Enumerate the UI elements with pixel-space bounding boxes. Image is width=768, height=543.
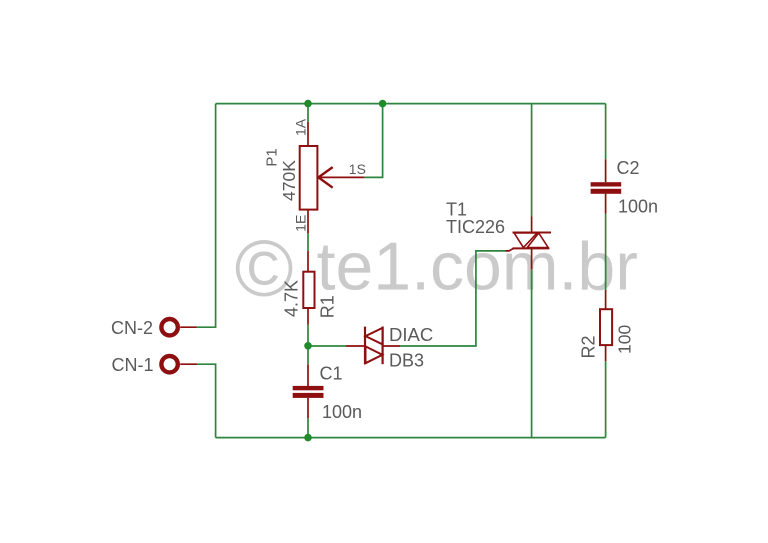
watermark te1.com.br — [317, 229, 638, 305]
svg-text:TIC226: TIC226 — [446, 217, 505, 237]
svg-text:100n: 100n — [618, 197, 658, 217]
svg-text:1A: 1A — [293, 118, 309, 136]
pin R1 bottom — [307, 308, 309, 325]
svg-text:DB3: DB3 — [389, 351, 424, 371]
pin CN-2 stub — [180, 326, 196, 328]
wire CN-1 to bottom rail — [197, 364, 216, 437]
svg-text:te1.com.br: te1.com.br — [317, 229, 638, 305]
watermark copyright symbol — [235, 224, 294, 313]
svg-text:R2: R2 — [579, 335, 599, 358]
diac DIAC lower triangle — [366, 346, 383, 363]
pin triac gate — [506, 248, 514, 251]
diac DIAC upper triangle — [366, 328, 383, 345]
wire top rail to triac MT2 — [531, 104, 533, 217]
wire R2 to bottom rail — [605, 361, 607, 437]
wire P1 1E to R1 — [307, 233, 309, 251]
svg-text:DIAC: DIAC — [389, 324, 433, 345]
wire node A to C1 — [307, 346, 309, 364]
diac DIAC right bar — [382, 327, 384, 365]
wire bottom rail — [216, 437, 606, 439]
triac T1 top bar — [513, 232, 552, 234]
resistor R2 body — [600, 309, 612, 345]
node junction P1 top — [304, 100, 312, 108]
pin C1 top — [307, 364, 309, 386]
node junction 1S top — [379, 100, 387, 108]
pin C2 bottom — [605, 194, 607, 214]
diac DIAC left bar — [364, 327, 366, 365]
capacitor C2 plates — [591, 182, 622, 186]
svg-text:CN-2: CN-2 — [111, 318, 153, 338]
pin CN-1 stub — [180, 363, 197, 365]
svg-text:CN-1: CN-1 — [112, 355, 154, 375]
svg-text:100n: 100n — [322, 402, 362, 422]
svg-text:C1: C1 — [320, 364, 343, 384]
wire left rail CN-2 to top — [197, 104, 216, 328]
wire C2 to R2 — [605, 214, 607, 290]
svg-text:C2: C2 — [617, 158, 640, 178]
pin DIAC right — [384, 345, 401, 347]
connector CN-1 — [161, 356, 177, 372]
svg-text:R1: R1 — [318, 295, 338, 318]
svg-text:1E: 1E — [293, 215, 309, 232]
triac T1 left triangle — [514, 233, 537, 248]
pin R2 top — [605, 290, 607, 309]
pin P1 1E — [307, 210, 309, 234]
wire R1 to node A — [307, 325, 309, 346]
pin triac MT1 — [531, 248, 533, 269]
resistor R1 body — [303, 272, 314, 308]
wire P1 1A to top rail — [307, 104, 309, 122]
pin C2 top — [605, 159, 607, 182]
wire right rail top to C2 — [605, 104, 607, 160]
triac T1 bottom bar — [513, 247, 550, 249]
wire DIAC to triac gate — [400, 251, 506, 346]
pin R2 bottom — [605, 345, 607, 361]
pin P1 1A — [307, 122, 309, 146]
pin DIAC left — [346, 345, 364, 347]
wire C1 to bottom rail — [307, 418, 309, 438]
wire 1S wiper net — [364, 104, 382, 178]
potentiometer P1 wiper arrow — [318, 167, 332, 188]
node junction A — [304, 342, 312, 350]
wire node A to DIAC — [308, 345, 346, 347]
pin R1 top — [307, 251, 309, 272]
wire triac MT1 to bottom rail — [531, 269, 533, 437]
svg-text:4.7K: 4.7K — [282, 280, 302, 317]
capacitor C1 plates — [293, 386, 324, 390]
svg-text:1S: 1S — [349, 161, 366, 177]
pin C1 bottom — [307, 398, 309, 418]
svg-text:100: 100 — [615, 325, 635, 354]
node junction bottom — [304, 434, 312, 442]
svg-text:470K: 470K — [279, 160, 299, 201]
pin triac MT2 — [531, 216, 533, 232]
triac T1 right triangle — [527, 233, 548, 248]
pin P1 wiper shaft — [318, 176, 364, 178]
wire top rail — [216, 103, 606, 105]
connector CN-2 — [161, 319, 177, 335]
potentiometer P1 body — [300, 146, 318, 210]
